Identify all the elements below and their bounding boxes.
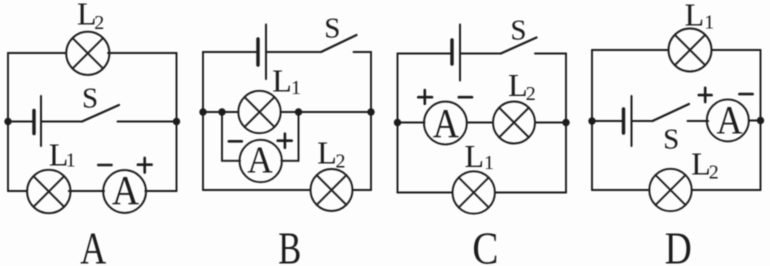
svg-text:D: D (665, 224, 692, 266)
svg-text:A: A (80, 224, 106, 266)
svg-text:1: 1 (66, 150, 76, 172)
svg-text:C: C (472, 224, 498, 266)
svg-text:L: L (272, 63, 292, 99)
svg-text:L: L (465, 138, 485, 174)
svg-text:S: S (82, 82, 98, 114)
svg-text:1: 1 (704, 11, 714, 33)
svg-text:2: 2 (709, 162, 719, 184)
svg-text:1: 1 (291, 77, 301, 99)
svg-text:S: S (510, 14, 526, 46)
svg-text:S: S (324, 12, 340, 44)
svg-text:L: L (508, 67, 528, 103)
svg-text:S: S (663, 123, 679, 155)
svg-text:A: A (717, 98, 743, 143)
svg-text:A: A (247, 140, 273, 182)
svg-text:2: 2 (94, 12, 104, 34)
svg-text:2: 2 (526, 83, 536, 105)
svg-text:A: A (433, 100, 459, 146)
svg-text:L: L (317, 134, 337, 170)
svg-text:L: L (685, 0, 705, 33)
svg-text:A: A (112, 167, 139, 213)
svg-text:2: 2 (336, 150, 346, 172)
svg-text:1: 1 (484, 152, 494, 174)
svg-text:B: B (278, 224, 301, 266)
